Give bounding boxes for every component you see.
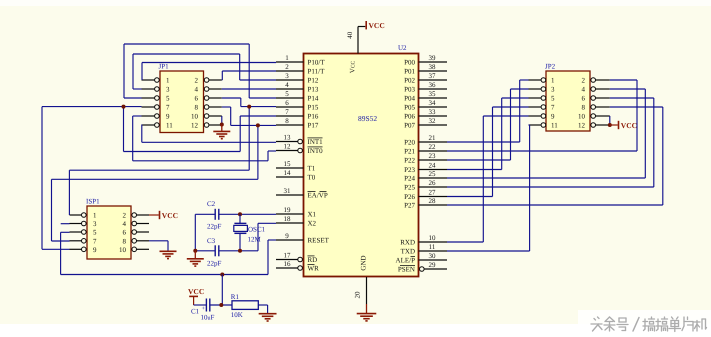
svg-text:P06: P06 [404,113,415,121]
svg-text:31: 31 [284,187,292,195]
svg-text:P11/T: P11/T [308,68,326,76]
svg-text:P21: P21 [404,148,415,156]
svg-text:4: 4 [582,86,586,94]
wire net P22 to JP2.3 [447,159,511,161]
IC U2 pin 3 (P12) left stub [276,79,304,81]
svg-text:2: 2 [582,77,586,85]
junction P16/MISO [122,105,126,109]
svg-text:12M: 12M [248,236,262,244]
IC U2 pin 15 (T1) left stub [276,167,304,169]
svg-text:5: 5 [551,95,555,103]
IC U2 pin 29 (PSEN) right stub [424,268,447,270]
connector JP1 pin 8 (right) [209,106,222,108]
wire net JP1.9 to IC INT0 [133,115,142,117]
ground symbol at R1 [259,313,277,315]
svg-text:12: 12 [191,122,199,130]
connector JP1 pin 11 (left) [142,124,155,126]
wire crystal caps ground column [194,214,196,251]
svg-text:12: 12 [284,143,292,151]
svg-text:X1: X1 [308,211,317,219]
svg-text:RXD: RXD [400,239,415,247]
connector JP2 pin 11 (left) [529,124,542,126]
svg-text:INT0: INT0 [308,147,324,155]
svg-text:16: 16 [284,260,292,268]
power symbol VCC at ISP1.2 [149,214,159,216]
capacitor C3 22pF [214,245,216,256]
junction JP2 VCC [608,123,612,127]
svg-text:22: 22 [429,143,437,151]
svg-text:7: 7 [285,108,289,116]
svg-text:5: 5 [93,229,97,237]
IC U2 pin 38 (P01) right stub [419,70,448,72]
svg-text:P17: P17 [308,122,319,130]
IC U2 pin 36 (P03) right stub [419,88,448,90]
svg-text:1: 1 [93,212,97,220]
wire net JP1.1 to IC P10 [141,63,143,81]
svg-text:19: 19 [284,206,292,214]
junction C2/C3 ground node [193,249,197,253]
power symbol VCC at JP2.12 [618,121,620,129]
IC U2 pin 20 (GND) bottom stub [366,277,368,304]
svg-text:10: 10 [191,113,199,121]
connector ISP1 pin 3 (left) [70,223,82,225]
svg-text:8: 8 [285,117,289,125]
svg-text:P20: P20 [404,139,415,147]
connector JP1 pin 6 (right) [209,97,222,99]
svg-text:6: 6 [123,229,127,237]
svg-text:9: 9 [93,246,97,254]
svg-text:22pF: 22pF [207,259,222,267]
wire net P27 to JP2.8 [447,204,663,206]
svg-text:3: 3 [93,220,97,228]
IC U2 pin 30 (ALE/P) right stub [419,259,448,261]
IC U2 pin 31 (EA/VP) left stub [276,194,304,196]
connector JP1 pin 1 (left) [142,79,155,81]
IC U2 pin 28 (P27) right stub [419,204,448,206]
svg-text:1: 1 [166,77,170,85]
wire reset line [61,274,268,276]
connector ISP1 pin 10 (right) [137,248,150,250]
svg-text:JP2: JP2 [545,63,556,71]
svg-text:9: 9 [166,113,170,121]
svg-text:24: 24 [429,162,437,170]
junction P17/SCK [256,123,260,127]
svg-text:P15: P15 [308,104,319,112]
wire net RXD to JP2.9 [447,241,483,243]
IC U2 pin 26 (P25) right stub [419,186,448,188]
IC U2 pin 23 (P22) right stub [419,159,448,161]
wire net JP1.11 to IC INT1 [141,125,143,143]
svg-text:9: 9 [285,232,289,240]
capacitor C1 10uF (electrolytic) [194,304,206,306]
wire net P23 to JP2.5 [447,169,502,171]
svg-text:TXD: TXD [401,248,415,256]
svg-text:P01: P01 [404,68,415,76]
svg-text:P27: P27 [404,202,415,210]
wire ISP1.3 stub (dangling) [61,223,70,225]
svg-text:7: 7 [551,104,555,112]
svg-text:R1: R1 [231,293,240,301]
connector JP2 pin 1 (left) [529,79,542,81]
svg-text:27: 27 [429,189,437,197]
IC U2 pin 35 (P04) right stub [419,97,448,99]
IC U2 pin 4 (P13) left stub [276,88,304,90]
connector JP2 pin 10 (right) [596,115,610,117]
svg-text:10: 10 [578,113,586,121]
IC U2 pin 14 (T0) left stub [276,176,304,178]
svg-text:C2: C2 [207,200,216,208]
connector ISP1 pin 5 (left) [70,231,82,233]
wire net JP1.10/12 to ground [221,116,223,125]
IC U2 pin 22 (P21) right stub [419,150,448,152]
wire net P25 to JP2.6 [447,186,654,188]
svg-text:8: 8 [582,104,586,112]
IC U2 pin 37 (P02) right stub [419,79,448,81]
svg-text:29: 29 [429,261,437,269]
svg-text:P22: P22 [404,157,415,165]
svg-text:VCC: VCC [621,121,637,130]
IC U2 pin 39 (P00) right stub [419,61,448,63]
svg-text:5: 5 [166,95,170,103]
wire net TXD to JP2.11 [447,250,530,252]
power symbol VCC (pin 40) [365,21,367,29]
wire X2 node line [195,250,215,252]
svg-text:P23: P23 [404,166,415,174]
wire net JP1.6 / IC P15 / ISP1.1 (MOSI) [222,97,241,99]
connector JP2 pin 8 (right) [596,106,610,108]
connector JP2 body [546,71,590,131]
svg-text:8: 8 [123,237,127,245]
svg-text:32: 32 [429,117,437,125]
svg-text:6: 6 [285,99,289,107]
wire net JP1.5 to IC P14 [124,97,142,99]
svg-text:38: 38 [429,63,437,71]
svg-text:P07: P07 [404,122,415,130]
svg-text:JP1: JP1 [159,63,170,71]
IC U2 pin 33 (P06) right stub [419,115,448,117]
IC U2 pin 10 (RXD) right stub [419,241,448,243]
svg-text:13: 13 [284,134,292,142]
svg-text:11: 11 [429,243,436,251]
svg-text:7: 7 [166,104,170,112]
svg-text:10: 10 [429,234,437,242]
connector JP2 pin 4 (right) [596,88,610,90]
connector ISP1 pin 8 (right) [137,240,150,242]
IC U2 pin 8 (P17) left stub [276,124,304,126]
svg-text:2: 2 [195,77,199,85]
IC U2 pin 7 (P16) left stub [276,115,304,117]
wire net JP1.3 to IC P12 [133,88,142,90]
svg-text:23: 23 [429,152,437,160]
svg-text:VCC: VCC [349,60,357,73]
wire net JP1.4 to IC P13 [222,88,276,90]
svg-text:2: 2 [285,63,289,71]
svg-text:T0: T0 [308,174,316,182]
svg-text:33: 33 [429,108,437,116]
connector JP1 pin 9 (left) [142,115,155,117]
connector JP2 pin 5 (left) [529,97,542,99]
connector JP1 pin 3 (left) [142,88,155,90]
connector ISP1 body [87,206,131,259]
IC U2 pin 18 (X2) left stub [276,222,304,224]
svg-text:VCC: VCC [369,21,385,30]
connector JP2 pin 12 (right) [596,124,610,126]
junction P15/MOSI [247,105,251,109]
svg-text:ISP1: ISP1 [86,198,100,206]
svg-text:15: 15 [284,160,292,168]
svg-text:X2: X2 [308,220,317,228]
IC U2 (89S52) body [304,54,419,277]
IC U2 pin 5 (P14) left stub [276,97,304,99]
svg-text:14: 14 [284,169,292,177]
IC U2 pin 34 (P05) right stub [419,106,448,108]
ground symbol below JP1 [221,125,223,132]
IC U2 pin 1 (P10/T) left stub [276,61,304,63]
svg-text:P14: P14 [308,95,319,103]
IC U2 pin 6 (P15) left stub [276,106,304,108]
svg-text:PSEN: PSEN [398,266,415,274]
wire net JP1.8 / IC P17 / ISP1.7 (SCK) [222,106,231,108]
svg-text:89S52: 89S52 [358,114,377,123]
IC U2 pin 2 (P11/T) left stub [276,70,304,72]
crystal OSC1 12M [239,214,241,223]
svg-text:RD: RD [308,256,318,264]
svg-text:T1: T1 [308,165,316,173]
svg-text:11: 11 [551,122,558,130]
connector JP1 pin 4 (right) [209,88,222,90]
svg-text:P26: P26 [404,193,415,201]
IC U2 pin 11 (TXD) right stub [419,250,448,252]
svg-text:7: 7 [93,237,97,245]
resistor R1 10K [232,301,258,310]
svg-text:25: 25 [429,170,437,178]
connector JP1 pin 2 (right) [209,79,222,81]
ground symbol at IC pin 20 [366,304,368,313]
svg-text:17: 17 [284,252,292,260]
svg-text:10: 10 [119,246,127,254]
svg-text:8: 8 [195,104,199,112]
svg-text:WR: WR [308,265,320,273]
svg-text:12: 12 [578,122,586,130]
junction reset line [220,273,224,277]
wire X1 node line [195,213,215,215]
svg-text:VCC: VCC [188,287,204,296]
svg-text:37: 37 [429,72,437,80]
svg-text:P13: P13 [308,86,319,94]
connector JP1 pin 12 (right) [209,124,222,126]
IC U2 pin 19 (X1) left stub [276,213,304,215]
IC U2 pin 27 (P26) right stub [419,196,448,198]
svg-text:3: 3 [166,86,170,94]
svg-text:P12: P12 [308,77,319,85]
junction C1/R1 reset node [219,303,223,307]
svg-text:1: 1 [551,77,555,85]
connector JP2 pin 9 (left) [529,115,542,117]
svg-text:GND: GND [360,255,368,270]
wire net P24 to JP2.4 [447,177,645,179]
svg-text:P02: P02 [404,77,415,85]
svg-text:P24: P24 [404,175,415,183]
IC U2 pin 24 (P23) right stub [419,169,448,171]
connector JP1 body [160,71,204,133]
svg-text:C3: C3 [207,237,216,245]
svg-text:ALE/P: ALE/P [396,257,416,265]
svg-text:22pF: 22pF [207,223,222,231]
svg-text:6: 6 [582,95,586,103]
svg-text:3: 3 [285,72,289,80]
svg-text:C1: C1 [191,308,200,316]
connector JP2 pin 3 (left) [529,88,542,90]
wire net P26 to JP2.7 [447,196,493,198]
svg-text:4: 4 [195,86,199,94]
svg-text:P10/T: P10/T [308,59,326,67]
svg-text:INT1: INT1 [308,138,324,146]
svg-text:10uF: 10uF [201,314,215,322]
capacitor C2 22pF [214,209,216,220]
svg-text:36: 36 [429,81,437,89]
junction X1 node [238,212,242,216]
svg-text:4: 4 [123,220,127,228]
connector ISP1 pin 1 (left) [70,214,82,216]
wire ISP1.5 to reset line [61,231,70,233]
IC U2 pin 9 (RESET) left stub [276,239,304,241]
svg-text:18: 18 [284,215,292,223]
IC U2 pin 12 (INT0) left stub [276,150,298,152]
svg-text:1: 1 [285,54,289,62]
svg-text:OSC1: OSC1 [248,226,266,234]
wire net JP2.10/12 to VCC [609,116,611,125]
svg-text:30: 30 [429,252,437,260]
svg-text:RESET: RESET [308,237,330,245]
svg-text:P03: P03 [404,86,415,94]
IC U2 pin 32 (P07) right stub [419,124,448,126]
connector JP1 pin 7 (left) [142,106,155,108]
IC U2 pin 40 (VCC) top stub [357,27,359,54]
svg-text:P16: P16 [308,113,319,121]
wire ISP1.8 to ground [149,240,168,242]
svg-text:9: 9 [551,113,555,121]
svg-text:11: 11 [166,122,173,130]
connector ISP1 pin 2 (right) [137,214,150,216]
svg-text:P04: P04 [404,95,415,103]
svg-text:P00: P00 [404,59,415,67]
connector JP2 pin 2 (right) [596,79,610,81]
wire net P20 to JP2.1 [447,141,520,143]
wire net P21 to JP2.2 [447,150,637,152]
svg-text:VCC: VCC [162,211,178,220]
IC U2 pin 13 (INT1) left stub [276,141,298,143]
svg-text:10K: 10K [231,311,243,319]
junction crystal bottom [238,249,242,253]
IC U2 pin 17 (RD) left stub [276,259,298,261]
ground symbol at ISP1.8 [160,250,177,252]
svg-text:EA/VP: EA/VP [308,192,328,200]
wire net JP1.7 / IC P16 / ISP1.9 (MISO) [42,106,142,108]
svg-text:35: 35 [429,90,437,98]
ground symbol at crystal caps [194,251,196,259]
svg-text:26: 26 [429,179,437,187]
watermark text imitation: 头条号 / 搞搞单片机 [591,317,708,333]
svg-text:P25: P25 [404,184,415,192]
svg-text:U2: U2 [398,44,407,52]
connector ISP1 pin 4 (right) [137,223,150,225]
connector JP1 pin 5 (left) [142,97,155,99]
svg-text:3: 3 [551,86,555,94]
svg-text:21: 21 [429,134,437,142]
svg-text:6: 6 [195,95,199,103]
connector ISP1 pin 7 (left) [70,240,82,242]
connector ISP1 pin 6 (right) [137,231,150,233]
svg-text:4: 4 [285,81,289,89]
IC U2 pin 16 (WR) left stub [276,267,298,269]
svg-text:34: 34 [429,99,437,107]
svg-text:20: 20 [354,291,362,299]
svg-text:P05: P05 [404,104,415,112]
connector JP2 pin 6 (right) [596,97,610,99]
svg-text:5: 5 [285,90,289,98]
junction JP1 ground [220,123,224,127]
wire net JP1.2 to IC P11 [221,79,224,81]
svg-text:2: 2 [123,212,127,220]
connector ISP1 pin 9 (left) [70,248,82,250]
svg-text:28: 28 [429,197,437,205]
IC U2 pin 21 (P20) right stub [419,141,448,143]
svg-text:40: 40 [346,31,354,39]
connector JP2 pin 7 (left) [529,106,542,108]
svg-text:39: 39 [429,54,437,62]
connector JP1 pin 10 (right) [209,115,222,117]
IC U2 pin 25 (P24) right stub [419,177,448,179]
